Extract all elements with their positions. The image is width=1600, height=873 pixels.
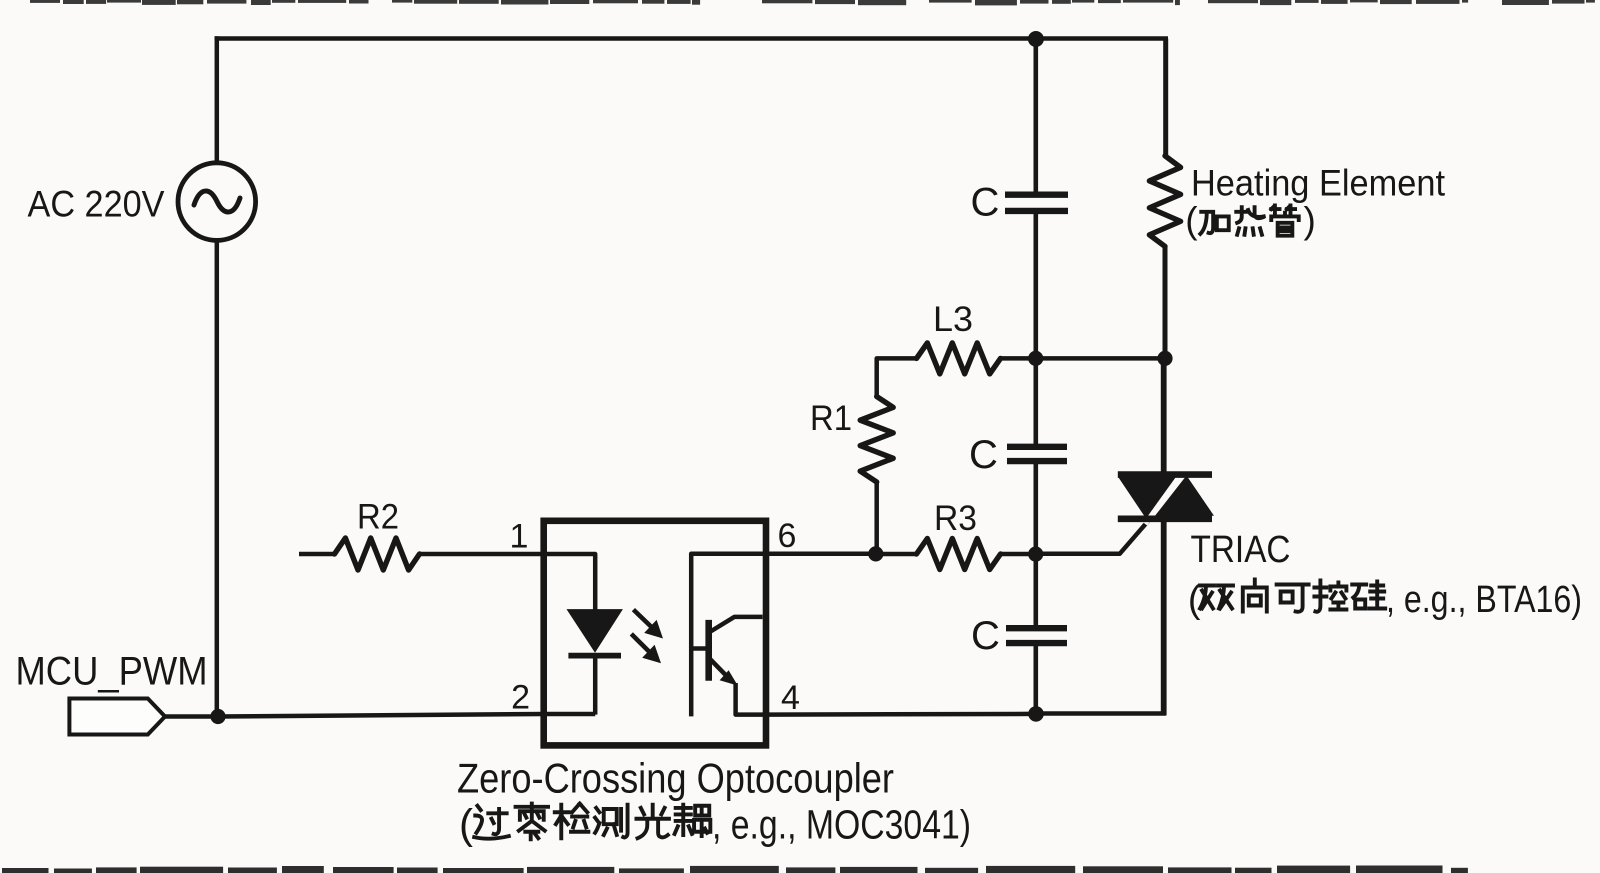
top cut-off text artifact strip <box>30 0 1595 5</box>
svg-text:2: 2 <box>511 679 530 717</box>
wire cap chain: C to node <box>1034 212 1039 358</box>
wire R2 to optocoupler pin 1 <box>420 552 548 557</box>
resistor R3 <box>917 539 1001 570</box>
wire cap chain: node to middle C <box>1034 358 1039 445</box>
wire emitter to pin 4 <box>736 683 766 715</box>
resistor heating element zigzag <box>1149 156 1180 247</box>
wire pin 4 to bottom node <box>766 712 1036 717</box>
light arrow 2 <box>631 634 649 652</box>
phototransistor base bar <box>705 620 712 681</box>
svg-text:, e.g., MOC3041): , e.g., MOC3041) <box>712 802 971 848</box>
svg-text:): ) <box>1304 200 1316 241</box>
wire LED cathode to pin 2 <box>593 657 598 715</box>
wire cap chain: top dot to C <box>1034 39 1039 193</box>
wire cap chain: bottom C to bottom rail <box>1034 645 1039 714</box>
svg-text:L3: L3 <box>933 300 973 339</box>
svg-text:1: 1 <box>510 518 529 556</box>
wire base stub <box>691 646 706 651</box>
wire phototransistor base lead (pin 6 internal) <box>691 554 766 717</box>
wire LED anode (pin 1 internal) <box>544 554 596 611</box>
wire pin 6 to node <box>766 552 877 557</box>
wire pin 2 internal to LED cathode <box>544 712 596 717</box>
LED D1 cathode bar <box>568 653 621 659</box>
wire triac gate <box>1036 518 1151 554</box>
svg-text:R1: R1 <box>810 399 852 438</box>
wire cap chain: middle C to node <box>1034 463 1039 555</box>
phototransistor emitter <box>711 660 732 681</box>
svg-text:6: 6 <box>778 517 797 555</box>
svg-text:C: C <box>971 181 1000 225</box>
node junction R1 bottom / pin6 wire <box>868 546 883 561</box>
capacitor C (top) <box>1005 191 1068 197</box>
node junction R3 / cap chain <box>1028 547 1043 562</box>
node junction bottom rail / cap chain <box>1028 706 1044 722</box>
wire flag to node <box>165 714 217 719</box>
svg-text:C: C <box>969 433 998 477</box>
svg-text:Zero-Crossing Optocoupler: Zero-Crossing Optocoupler <box>457 754 894 801</box>
wire top rail <box>215 36 1168 41</box>
node junction top rail / capacitor chain <box>1028 31 1044 47</box>
resistor R1 (vertical) <box>860 397 893 483</box>
AC source V1 circle <box>178 163 256 241</box>
svg-text:TRIAC: TRIAC <box>1191 529 1291 571</box>
wire cap chain: node to bottom C <box>1034 554 1039 627</box>
svg-text:R3: R3 <box>934 499 977 538</box>
wire left rail top segment <box>215 36 220 161</box>
svg-text:AC 220V: AC 220V <box>28 183 165 225</box>
phototransistor collector <box>711 617 763 632</box>
svg-text:R2: R2 <box>357 498 399 537</box>
triac bottom bar MT1 <box>1118 515 1212 522</box>
resistor R2 <box>335 538 420 570</box>
svg-text:C: C <box>971 614 1000 658</box>
svg-text:4: 4 <box>781 679 800 717</box>
svg-text:, e.g., BTA16): , e.g., BTA16) <box>1386 579 1582 621</box>
wire triac vertical lower <box>1161 519 1167 716</box>
wire L3 node to triac top node <box>1036 356 1165 361</box>
wire bottom node to triac <box>1036 711 1166 716</box>
MCU_PWM signal flag <box>69 699 165 735</box>
node junction MCU / AC rail <box>210 709 225 724</box>
wire R2 left lead <box>299 552 335 557</box>
wire L3 right lead <box>1001 356 1036 361</box>
wire L3 left lead / R1 top corner <box>877 358 917 396</box>
capacitor C (middle) <box>1007 444 1067 450</box>
capacitor C (bottom) <box>1006 625 1067 631</box>
wire R3 right lead <box>1001 552 1036 557</box>
inductor L3 (drawn as zigzag) <box>917 343 1001 374</box>
LED D1 triangle <box>567 610 622 652</box>
svg-text:MCU_PWM: MCU_PWM <box>16 650 208 694</box>
wire MCU node to optocoupler pin 2 <box>217 714 544 717</box>
wire R3 left lead <box>876 552 917 557</box>
light arrow 1 <box>633 610 652 628</box>
wire R1 bottom lead <box>874 482 879 554</box>
wire heating element top lead <box>1163 39 1168 157</box>
triac top bar MT2 <box>1118 471 1212 478</box>
node junction L3 / cap chain <box>1028 351 1043 366</box>
bottom cut-off text artifact strip <box>2 866 1468 873</box>
triac white slash gap <box>1144 470 1187 524</box>
svg-text:(: ( <box>1185 200 1198 241</box>
wire left rail bottom segment <box>215 242 220 717</box>
svg-text:Heating Element: Heating Element <box>1191 162 1446 203</box>
optocoupler U1 package box <box>544 521 766 746</box>
AC source sine symbol <box>194 191 240 212</box>
triac right triangle <box>1155 476 1214 516</box>
wire triac vertical upper <box>1161 358 1167 476</box>
triac left triangle <box>1119 478 1176 519</box>
wire heating element bottom lead <box>1163 246 1168 359</box>
node junction triac top / heating bottom <box>1157 351 1172 366</box>
svg-text:(: ( <box>459 801 473 848</box>
